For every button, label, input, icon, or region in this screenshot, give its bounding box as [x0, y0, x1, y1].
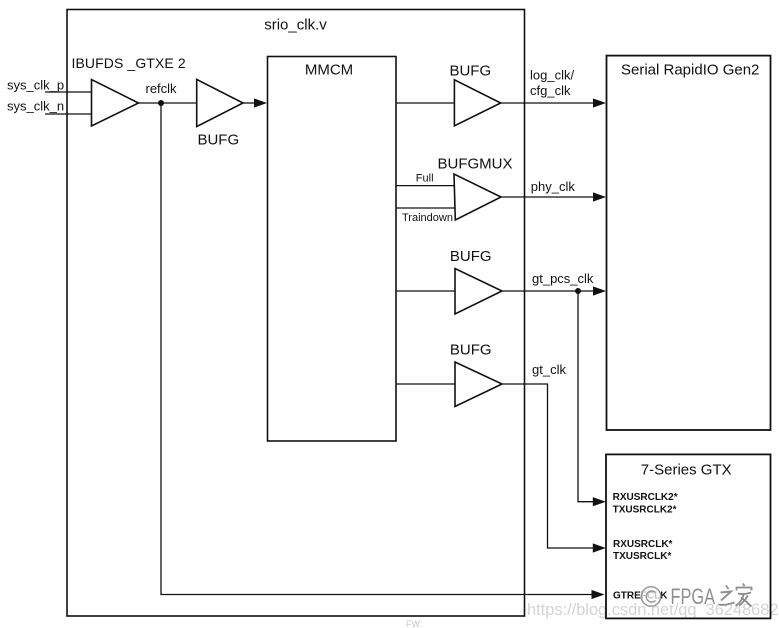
node refclk: [158, 100, 164, 106]
svg-text:RXUSRCLK2*: RXUSRCLK2*: [613, 492, 678, 503]
buffer BUFG1: [197, 79, 243, 126]
arrow into MMCM: [254, 98, 267, 107]
svg-text:gt_clk: gt_clk: [532, 362, 566, 377]
mux BUFGMUX: [454, 174, 501, 220]
node gt_pcs_clk: [575, 288, 581, 294]
arrow gt_pcs_clk into Serial RapidIO: [593, 286, 606, 295]
svg-text:gt_pcs_clk: gt_pcs_clk: [532, 271, 594, 286]
svg-text:FPGA: FPGA: [671, 584, 716, 609]
svg-text:7-Series GTX: 7-Series GTX: [641, 461, 732, 478]
arrow log_clk into Serial RapidIO: [593, 98, 606, 107]
wire log_clk: [501, 102, 594, 104]
watermark circle logo: [641, 587, 660, 606]
watermark glyph zhi: [719, 586, 735, 605]
block Serial RapidIO Gen2: [607, 56, 771, 430]
svg-text:cfg_clk: cfg_clk: [530, 83, 571, 98]
wire IBUFDS to BUFG1: [139, 102, 197, 104]
svg-text:BUFG: BUFG: [450, 248, 492, 265]
buffer BUFG3: [455, 269, 502, 315]
wire MMCM to BUFG2: [396, 102, 454, 104]
svg-text:refclk: refclk: [146, 81, 178, 96]
wire Traindown: [396, 207, 455, 209]
block MMCM: [268, 57, 397, 442]
svg-text:TXUSRCLK*: TXUSRCLK*: [613, 551, 671, 562]
wire MMCM to BUFG3: [396, 290, 455, 292]
svg-text:BUFG: BUFG: [449, 63, 491, 80]
wire sys_clk_p: [45, 91, 92, 93]
wire gt_pcs_clk down: [578, 291, 594, 502]
wire Full: [396, 185, 454, 187]
svg-text:Serial RapidIO Gen2: Serial RapidIO Gen2: [621, 62, 759, 79]
buffer BUFG2: [454, 80, 500, 126]
svg-text:sys_clk_n: sys_clk_n: [7, 98, 64, 113]
svg-text:sys_clk_p: sys_clk_p: [7, 78, 64, 93]
arrow phy_clk into Serial RapidIO: [593, 192, 606, 201]
svg-text:FW:: FW:: [406, 619, 422, 628]
buffer IBUFDS_GTXE2: [92, 80, 139, 127]
wire gt_clk: [502, 384, 594, 548]
wire refclk down to GTREFCLK: [161, 103, 592, 595]
svg-text:IBUFDS _GTXE 2: IBUFDS _GTXE 2: [72, 55, 186, 71]
svg-text:phy_clk: phy_clk: [531, 179, 576, 194]
svg-text:BUFGMUX: BUFGMUX: [438, 156, 513, 173]
arrow into GTREFCLK: [592, 590, 605, 599]
svg-text:log_clk/: log_clk/: [530, 67, 574, 82]
svg-text:srio_clk.v: srio_clk.v: [264, 17, 327, 34]
wire MMCM to BUFG4: [396, 383, 455, 385]
watermark glyph jia: [736, 584, 752, 607]
module box srio_clk.v: [67, 10, 525, 617]
svg-text:BUFG: BUFG: [450, 341, 492, 358]
svg-text:MMCM: MMCM: [305, 61, 353, 78]
watermark circle inner C: [646, 591, 655, 602]
wire BUFG1 to MMCM: [243, 102, 257, 104]
svg-text:TXUSRCLK2*: TXUSRCLK2*: [613, 504, 677, 515]
svg-text:BUFG: BUFG: [197, 131, 239, 148]
wire phy_clk: [501, 196, 594, 198]
svg-text:RXUSRCLK*: RXUSRCLK*: [613, 539, 673, 550]
wire gt_pcs_clk: [502, 290, 594, 292]
buffer BUFG4: [455, 362, 502, 407]
wire sys_clk_n: [45, 113, 92, 115]
arrow into RXUSRCLK2: [593, 497, 606, 506]
svg-text:Full: Full: [416, 173, 434, 185]
svg-text:Traindown: Traindown: [402, 212, 453, 224]
block 7-Series GTX: [606, 454, 771, 618]
arrow into RXUSRCLK: [593, 543, 606, 552]
